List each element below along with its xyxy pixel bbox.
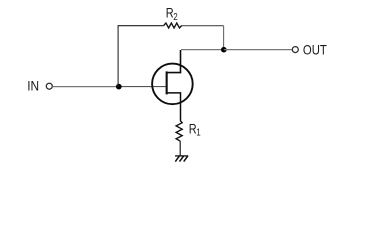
svg-text:1: 1	[196, 127, 200, 138]
svg-text:2: 2	[173, 11, 177, 22]
terminal IN	[46, 83, 52, 89]
transistor Q1 drain lead	[167, 50, 181, 73]
ground hatch 3	[184, 156, 188, 162]
wire right drop	[223, 26, 225, 50]
ground bar	[175, 155, 188, 157]
wire R1 to ground	[179, 141, 181, 156]
node IN label	[27, 77, 39, 93]
wire gate lead	[119, 86, 166, 88]
terminal OUT	[292, 47, 298, 53]
svg-text:R: R	[166, 5, 174, 21]
junction dot output node	[221, 47, 227, 53]
transistor Q1 source lead	[167, 93, 181, 121]
node OUT label	[303, 42, 327, 57]
wire IN lead	[53, 86, 119, 88]
label R1	[189, 121, 197, 137]
transistor Q1 body circle	[152, 64, 193, 105]
wire top rail right	[182, 25, 224, 27]
transistor Q1 gate bar	[166, 71, 168, 94]
svg-text:R: R	[189, 121, 197, 137]
wire top rail left	[118, 25, 164, 27]
ground hatch 2	[180, 156, 184, 162]
label R2	[166, 5, 174, 21]
junction dot input node	[116, 84, 122, 90]
ground hatch 1	[175, 156, 179, 162]
resistor R2	[164, 23, 182, 28]
svg-text:IN: IN	[27, 77, 39, 93]
wire drain to out node	[181, 49, 224, 51]
wire OUT lead	[224, 49, 292, 51]
wire input node up	[117, 26, 119, 87]
resistor R1	[176, 121, 182, 141]
svg-text:OUT: OUT	[303, 42, 327, 57]
